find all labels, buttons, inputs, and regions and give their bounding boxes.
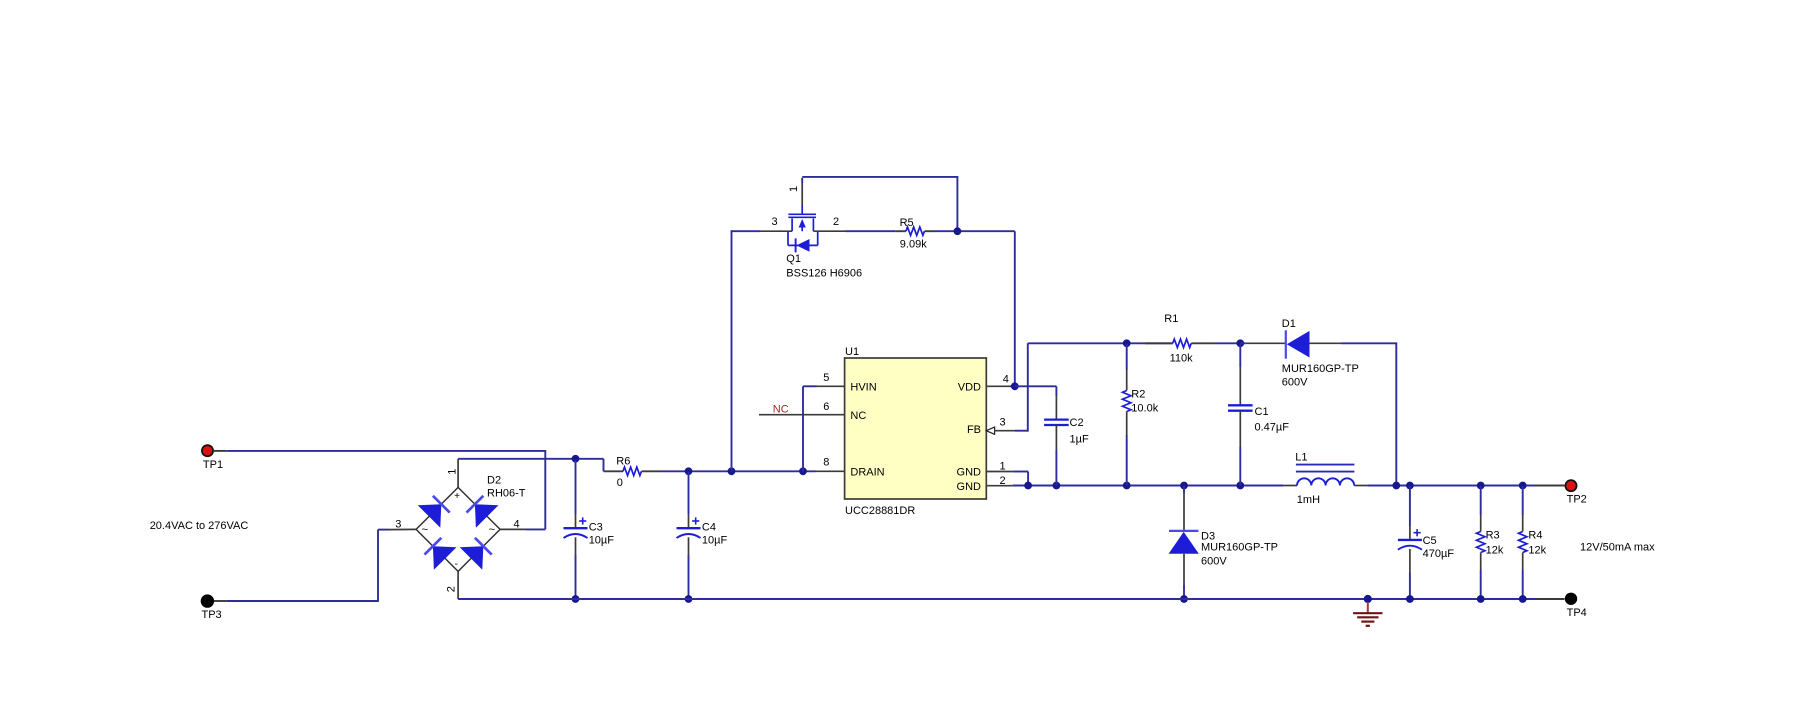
svg-text:~: ~ [422,524,428,536]
svg-text:10µF: 10µF [589,535,615,547]
U1 pin 6 stub NC [759,401,845,415]
svg-text:NC: NC [773,404,789,416]
svg-text:3: 3 [999,417,1005,429]
svg-text:1µF: 1µF [1070,433,1089,445]
junction R2 bottom [1123,482,1131,490]
junction C4 top [685,467,693,475]
svg-text:R6: R6 [616,455,630,467]
svg-text:600V: 600V [1282,376,1308,388]
junction C1 top [1236,339,1244,347]
svg-text:2: 2 [833,216,839,228]
svg-text:FB: FB [967,424,981,436]
labels D3 MUR160GP-TP 600V [1201,530,1278,567]
svg-text:470µF: 470µF [1423,548,1455,560]
junction C5 bottom [1406,595,1414,603]
wire VDD to C2 [1015,386,1057,396]
resistor R6 [604,467,661,475]
svg-text:U1: U1 [845,346,859,358]
op-amp U1 UCC28881DR box [845,346,987,517]
wire FB to feedback divider [1027,343,1029,431]
labels D1 MUR160GP-TP 600V [1282,318,1359,388]
U1 pin 8 stub DRAIN [816,457,845,472]
wire GND1 jog [1013,472,1028,486]
wire Q1 gate to DRAIN net [732,230,761,471]
junction D1 return [1392,482,1400,490]
svg-text:600V: 600V [1201,555,1227,567]
U1 pin 1 stub GND [986,460,1013,472]
junction C3 bottom [572,595,580,603]
svg-text:DRAIN: DRAIN [850,466,884,478]
svg-text:R2: R2 [1131,389,1145,401]
transistor Q1 pin 3 lead [760,216,792,231]
wire D1 anode down to output node [1395,342,1397,485]
bridge pin 2 number [446,586,458,592]
svg-text:0.47µF: 0.47µF [1255,421,1290,433]
svg-text:R4: R4 [1528,530,1542,542]
bridge pin 4 stub [500,528,545,530]
U1 pin 3 stub FB [995,417,1028,431]
svg-text:110k: 110k [1170,353,1194,365]
bridge pin 1 number [447,469,459,475]
svg-text:TP4: TP4 [1567,607,1587,619]
junction R3 top [1477,482,1485,490]
svg-text:9.09k: 9.09k [900,239,927,251]
bridge pin 4 number [514,518,520,530]
svg-text:C1: C1 [1255,406,1269,418]
diode D1 [1240,330,1396,358]
diode D3 [1169,486,1199,599]
bridge labels D2 RH06-T [487,475,526,500]
wire bottom bus (net GND return) [458,598,1564,600]
test point TP1 [202,445,223,471]
bridge polarity marks [422,491,495,570]
transistor Q1 body diode [788,231,818,252]
svg-text:20.4VAC to 276VAC: 20.4VAC to 276VAC [150,520,249,532]
svg-text:TP3: TP3 [202,609,222,621]
junction GND1 join [1024,482,1032,490]
U1 pin 2 stub GND [986,475,1013,487]
capacitor C1 [1228,344,1253,486]
test point TP4 [1565,593,1587,619]
svg-text:0: 0 [617,477,623,489]
capacitor C4 [677,472,701,599]
wire R5 to VDD vertical [935,231,1015,386]
svg-text:L1: L1 [1295,452,1307,464]
svg-text:R3: R3 [1486,530,1500,542]
svg-text:1mH: 1mH [1297,494,1320,506]
junction VDD node [1011,382,1019,390]
svg-text:12V/50mA max: 12V/50mA max [1580,542,1655,554]
svg-text:+: + [454,491,460,502]
junction HVIN wire [799,467,807,475]
capacitor C5 [1398,486,1422,599]
U1 pin names [850,381,981,492]
junction R3 bottom [1477,595,1485,603]
svg-text:MUR160GP-TP: MUR160GP-TP [1201,542,1278,554]
svg-text:2: 2 [999,475,1005,487]
svg-text:R1: R1 [1164,313,1178,325]
svg-text:D1: D1 [1282,318,1296,330]
U1 pin 5 stub HVIN [817,372,845,386]
transistor Q1 pin 1 number [788,186,800,192]
junction C3 top [572,455,580,463]
label C2 value [1070,417,1089,445]
wire Q1 source to R5 [846,230,896,232]
svg-text:4: 4 [514,518,520,530]
svg-text:UCC28881DR: UCC28881DR [845,505,915,517]
wire R6 to DRAIN pin (net DRAIN) [661,470,816,472]
wire TP3 to bridge pin 3 (net AC2) [214,530,389,602]
label NC red [773,404,789,416]
wire FB line to D1 (net VDD sense) [1028,342,1173,344]
svg-text:VDD: VDD [958,381,981,393]
svg-text:TP1: TP1 [203,459,223,471]
bridge diode lower-left (points to AC corner) [425,538,457,570]
svg-text:~: ~ [489,524,495,536]
svg-text:RH06-T: RH06-T [487,488,526,500]
label C1 value [1255,406,1290,434]
label C5 value [1423,535,1455,560]
svg-text:-: - [455,559,458,570]
svg-text:GND: GND [957,467,982,479]
svg-text:6: 6 [823,401,829,413]
svg-text:GND: GND [957,481,982,493]
inductor L1 [1283,465,1396,486]
label L1 value [1295,452,1320,507]
resistor R1 [1145,339,1240,347]
svg-text:12k: 12k [1486,544,1504,556]
junction R5 right / Q1 drain loop [954,227,962,235]
label input voltage range [150,520,249,532]
U1 pin 4 stub VDD [986,374,1015,387]
svg-text:2: 2 [446,586,458,592]
transistor Q1 pin 2 lead [813,216,845,231]
junction R4 bottom [1519,595,1527,603]
junction R4 top [1519,482,1527,490]
wire bridge pin1 to R6 (net VIN) [458,459,603,472]
svg-text:C3: C3 [589,521,603,533]
junction ground symbol [1364,595,1372,603]
junction D3 top node [1180,482,1188,490]
bridge diode upper-right (points to + corner) [467,496,499,528]
svg-text:NC: NC [850,410,866,422]
svg-text:R5: R5 [900,217,914,229]
bridge pin 1 stub [457,459,459,488]
svg-text:D2: D2 [487,475,501,487]
resistor R5 [896,227,935,235]
label C3 value [589,521,615,546]
ground [1353,602,1382,626]
junction C4 bottom [685,595,693,603]
label R6 value [616,455,630,489]
resistor R4 [1519,486,1527,599]
svg-text:C4: C4 [702,521,716,533]
transistor Q1 pin 1 stub [801,178,803,205]
bridge diode upper-left (points to + corner) [418,496,450,528]
svg-text:1: 1 [788,186,800,192]
junction R2 top [1123,339,1131,347]
resistor R3 [1477,486,1485,599]
test point TP3 [201,595,221,621]
svg-text:C2: C2 [1070,417,1084,429]
svg-text:1: 1 [999,460,1005,472]
test point TP2 [1565,480,1586,505]
resistor R2 [1123,344,1131,486]
label R3 value [1486,530,1504,557]
capacitor C2 [1044,396,1069,486]
svg-text:8: 8 [823,457,829,469]
label output rating [1580,542,1655,554]
U1 pin 3 FB arrow [986,427,994,434]
svg-text:3: 3 [772,216,778,228]
label R1 value [1164,313,1193,365]
junction C5 top [1406,482,1414,490]
bridge rectifier D2 diamond outline [416,487,500,571]
svg-text:D3: D3 [1201,530,1215,542]
svg-text:BSS126 H6906: BSS126 H6906 [786,267,862,279]
svg-text:1: 1 [447,469,459,475]
junction C2 bottom [1053,482,1061,490]
junction D3 bottom [1180,595,1188,603]
label C4 value [702,521,728,546]
wire output bus to TP2 [1396,485,1564,487]
svg-text:Q1: Q1 [786,253,801,265]
svg-text:5: 5 [823,372,829,384]
wire HVIN to DRAIN net [803,386,817,471]
label R4 value [1528,530,1546,557]
capacitor C3 [564,460,588,599]
svg-text:4: 4 [1003,374,1009,386]
bridge pin 3 stub [388,518,416,530]
label R5 value [900,217,928,251]
svg-text:C5: C5 [1423,535,1437,547]
wire mid bus GND2 to L1 [1013,485,1283,487]
svg-text:10.0k: 10.0k [1131,403,1158,415]
wire Q1 drain top loop (to VDD net) [802,176,957,231]
junction C1 bottom [1236,482,1244,490]
junction Q1 gate wire [728,467,736,475]
svg-text:TP2: TP2 [1567,494,1587,506]
bridge diode lower-right (points to AC corner) [460,538,492,570]
svg-text:10µF: 10µF [702,535,728,547]
labels Q1 BSS126 H6906 [786,253,862,279]
svg-text:12k: 12k [1528,544,1546,556]
bridge pin 2 stub [457,571,459,599]
svg-text:MUR160GP-TP: MUR160GP-TP [1282,363,1359,375]
label R2 value [1131,389,1158,415]
wire TP1 to bridge pin 4 (net AC1) [213,450,545,529]
svg-text:HVIN: HVIN [850,381,876,393]
transistor Q1 BSS126 symbol [788,205,816,231]
svg-text:3: 3 [395,518,401,530]
